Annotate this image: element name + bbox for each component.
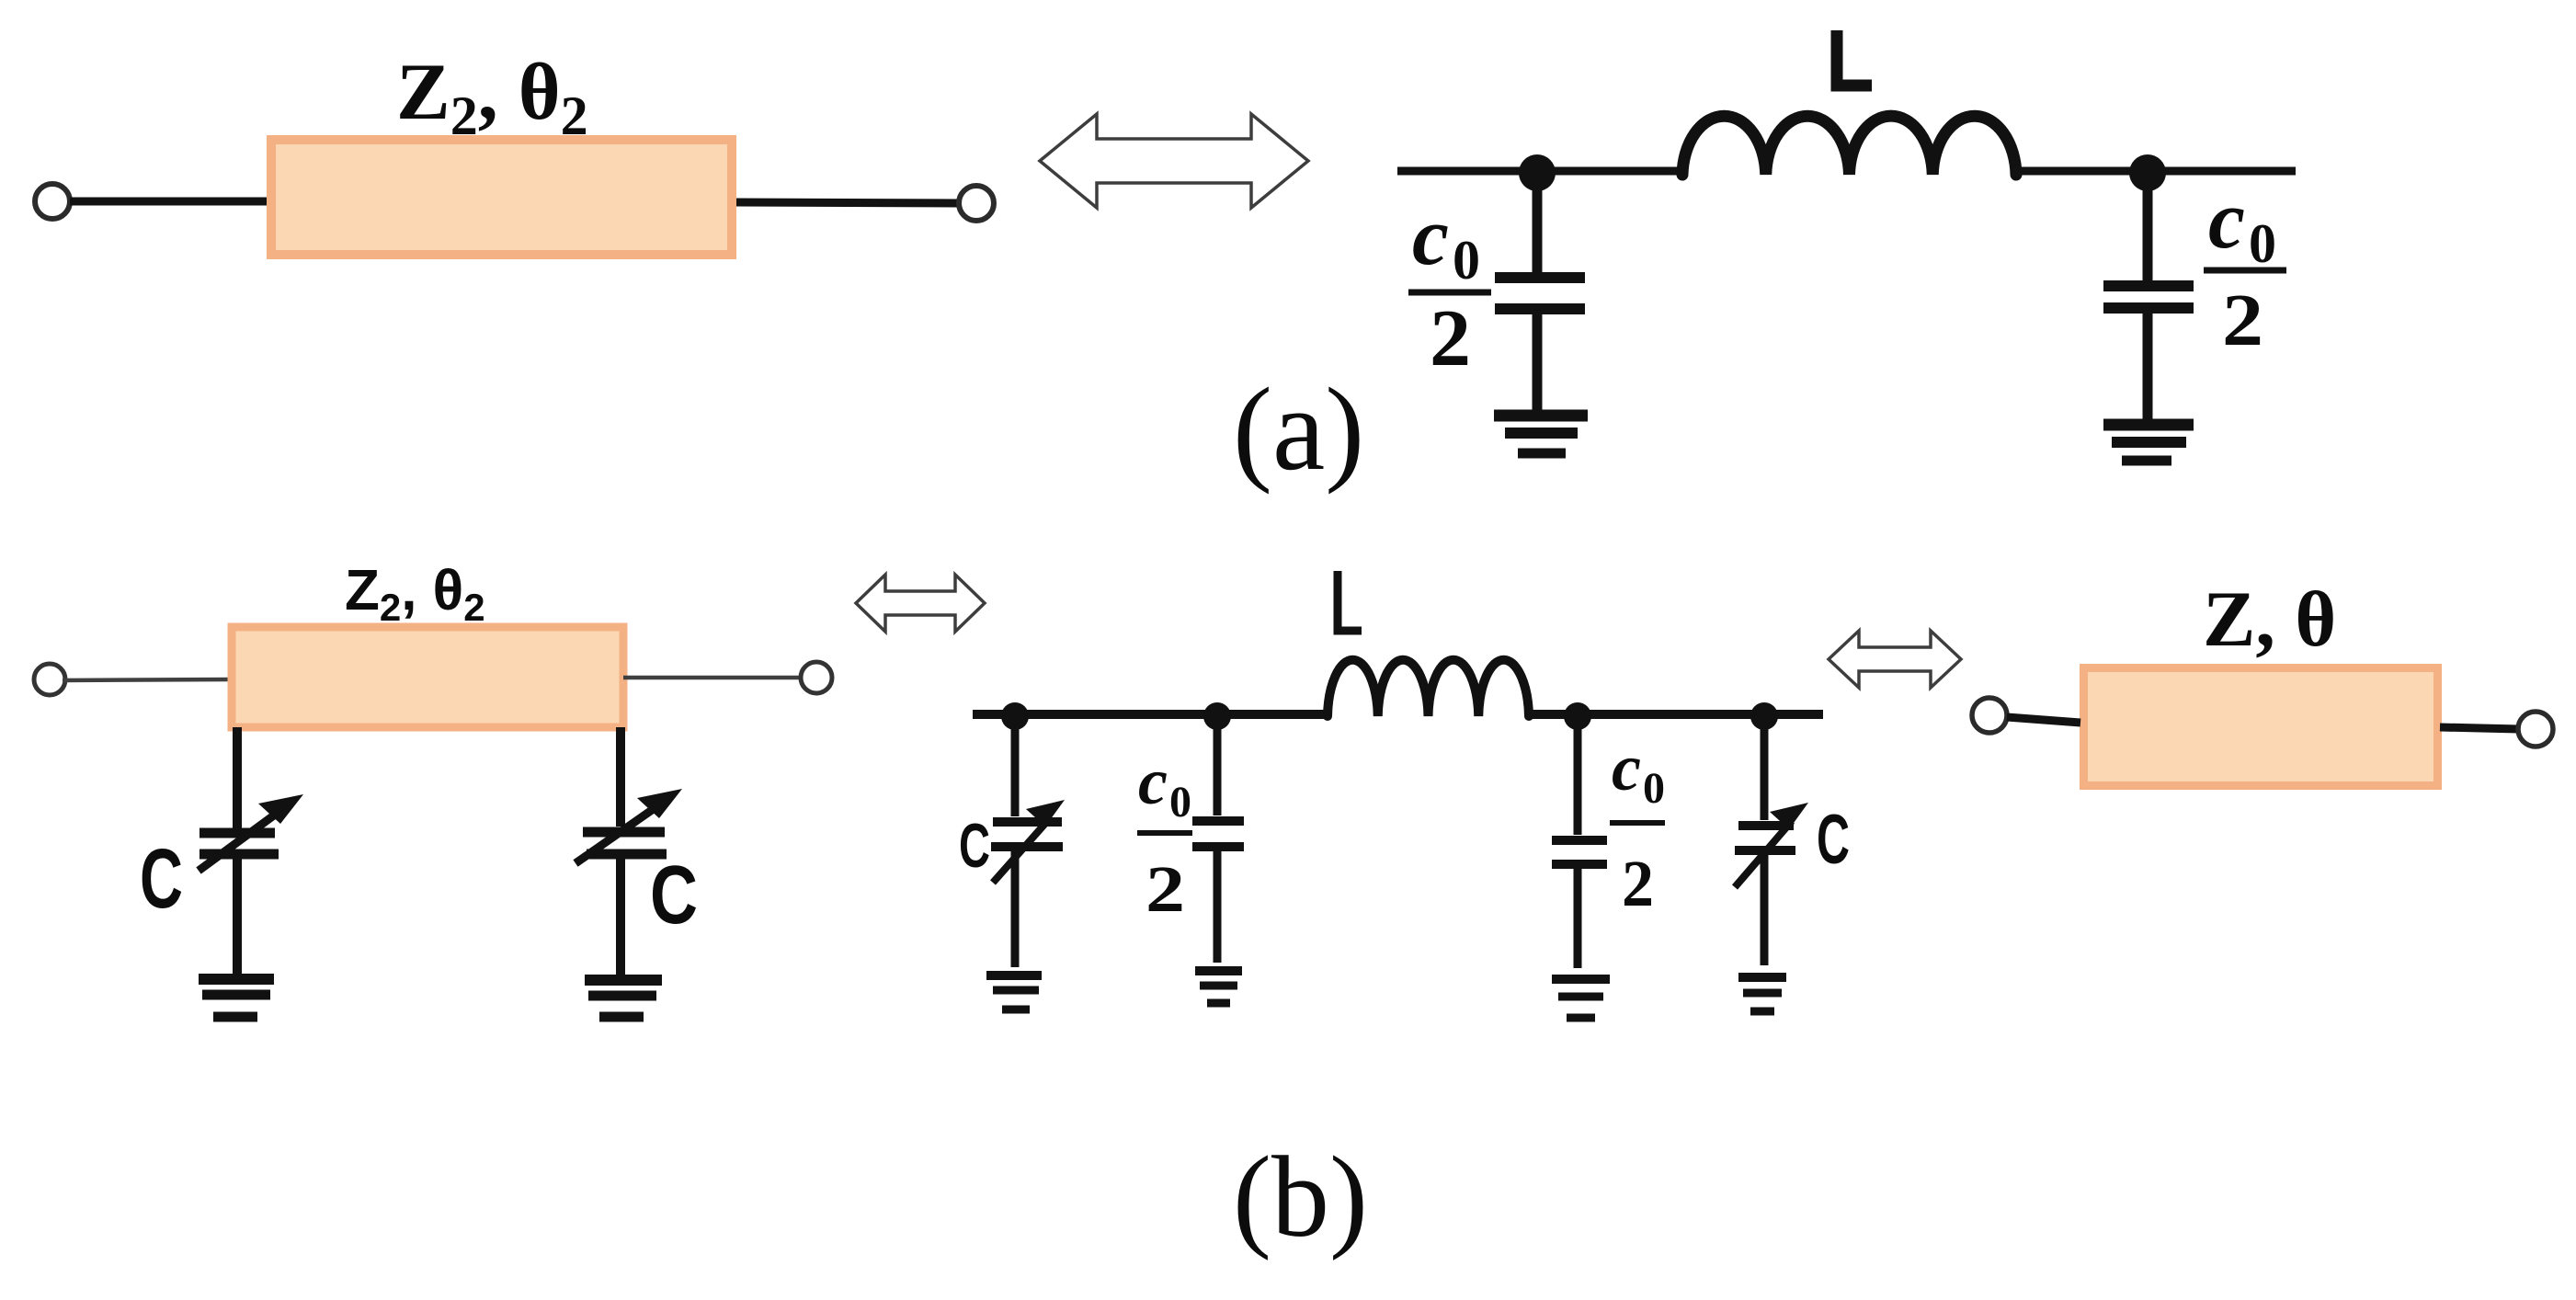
- svg-text:C: C: [1817, 801, 1850, 879]
- wire: [1526, 710, 1823, 719]
- wire: [2007, 717, 2080, 723]
- svg-text:c: c: [1612, 731, 1641, 804]
- wire: [973, 710, 1330, 719]
- svg-text:c: c: [2208, 175, 2245, 266]
- ground: [1494, 416, 1588, 453]
- wire: [623, 676, 802, 680]
- node junction N3: [1001, 702, 1029, 730]
- terminal port P5: [1972, 698, 2007, 733]
- wire: [2012, 167, 2296, 176]
- terminal port P2: [959, 186, 994, 221]
- ground: [986, 975, 1042, 1009]
- wire: [736, 202, 960, 203]
- value label C0/2 (inner-left): [1137, 745, 1192, 926]
- inductor L2: [1328, 660, 1529, 716]
- capacitor C0/2 (inner-left shunt): [1192, 719, 1244, 963]
- svg-text:C: C: [650, 850, 698, 941]
- svg-text:2: 2: [2222, 280, 2263, 361]
- node junction N6: [1750, 702, 1778, 730]
- ground: [1552, 979, 1610, 1018]
- node junction N4: [1203, 702, 1231, 730]
- svg-text:Z, θ: Z, θ: [2203, 575, 2336, 663]
- transmission line TL3 (Z, theta): [2084, 668, 2438, 786]
- svg-text:C: C: [140, 832, 183, 926]
- svg-text:2: 2: [1622, 847, 1654, 920]
- value label C0/2 (inner-right): [1610, 731, 1665, 920]
- svg-text:0: 0: [1169, 778, 1191, 827]
- value label C0/2 (right): [2204, 175, 2286, 361]
- svg-text:2: 2: [1146, 852, 1185, 926]
- wire: [70, 198, 270, 206]
- svg-text:0: 0: [2249, 213, 2276, 274]
- variable capacitor C (outer-right shunt): [1735, 719, 1795, 965]
- label L2: [1338, 571, 1362, 631]
- svg-text:0: 0: [1453, 230, 1480, 291]
- capacitor C0/2 (right shunt of (a)): [2103, 175, 2194, 423]
- label L: [1837, 30, 1872, 86]
- value label C0/2 (left): [1408, 191, 1491, 383]
- ground: [2103, 425, 2194, 461]
- ground: [585, 980, 662, 1017]
- svg-text:(a): (a): [1233, 363, 1364, 495]
- variable capacitor C (left of TL2): [199, 727, 285, 974]
- terminal port P4: [801, 662, 832, 693]
- ground: [1195, 971, 1242, 1003]
- terminal port P1: [35, 184, 70, 219]
- ground: [1738, 977, 1786, 1011]
- svg-text:0: 0: [1643, 764, 1665, 813]
- svg-text:c: c: [1138, 745, 1168, 818]
- node junction N1: [1519, 154, 1556, 191]
- svg-text:c: c: [1412, 191, 1449, 282]
- svg-text:Z2, θ2: Z2, θ2: [396, 48, 588, 146]
- terminal port P3: [34, 664, 65, 695]
- transmission line TL2 (Z2, theta2): [232, 627, 623, 727]
- node junction N2: [2129, 154, 2166, 191]
- svg-text:2: 2: [1430, 294, 1471, 383]
- svg-text:(b): (b): [1233, 1134, 1368, 1261]
- wire: [2440, 727, 2519, 729]
- capacitor C0/2 (left shunt of (a)): [1495, 175, 1585, 414]
- inductor L: [1682, 116, 2016, 175]
- equivalence arrow 1: [1040, 114, 1308, 208]
- transmission line TL1 (Z2, theta2): [271, 140, 732, 255]
- equivalence arrow 3: [1829, 631, 1961, 688]
- equivalence arrow 2: [856, 575, 985, 632]
- svg-text:C: C: [959, 811, 990, 881]
- variable capacitor C (outer-left shunt): [991, 719, 1063, 967]
- ground: [199, 979, 274, 1017]
- variable capacitor C (right of TL2): [576, 727, 667, 975]
- capacitor C0/2 (inner-right shunt): [1552, 719, 1607, 968]
- node junction N5: [1564, 702, 1591, 730]
- terminal port P6: [2518, 712, 2553, 747]
- wire: [1397, 167, 1686, 176]
- wire: [63, 679, 232, 680]
